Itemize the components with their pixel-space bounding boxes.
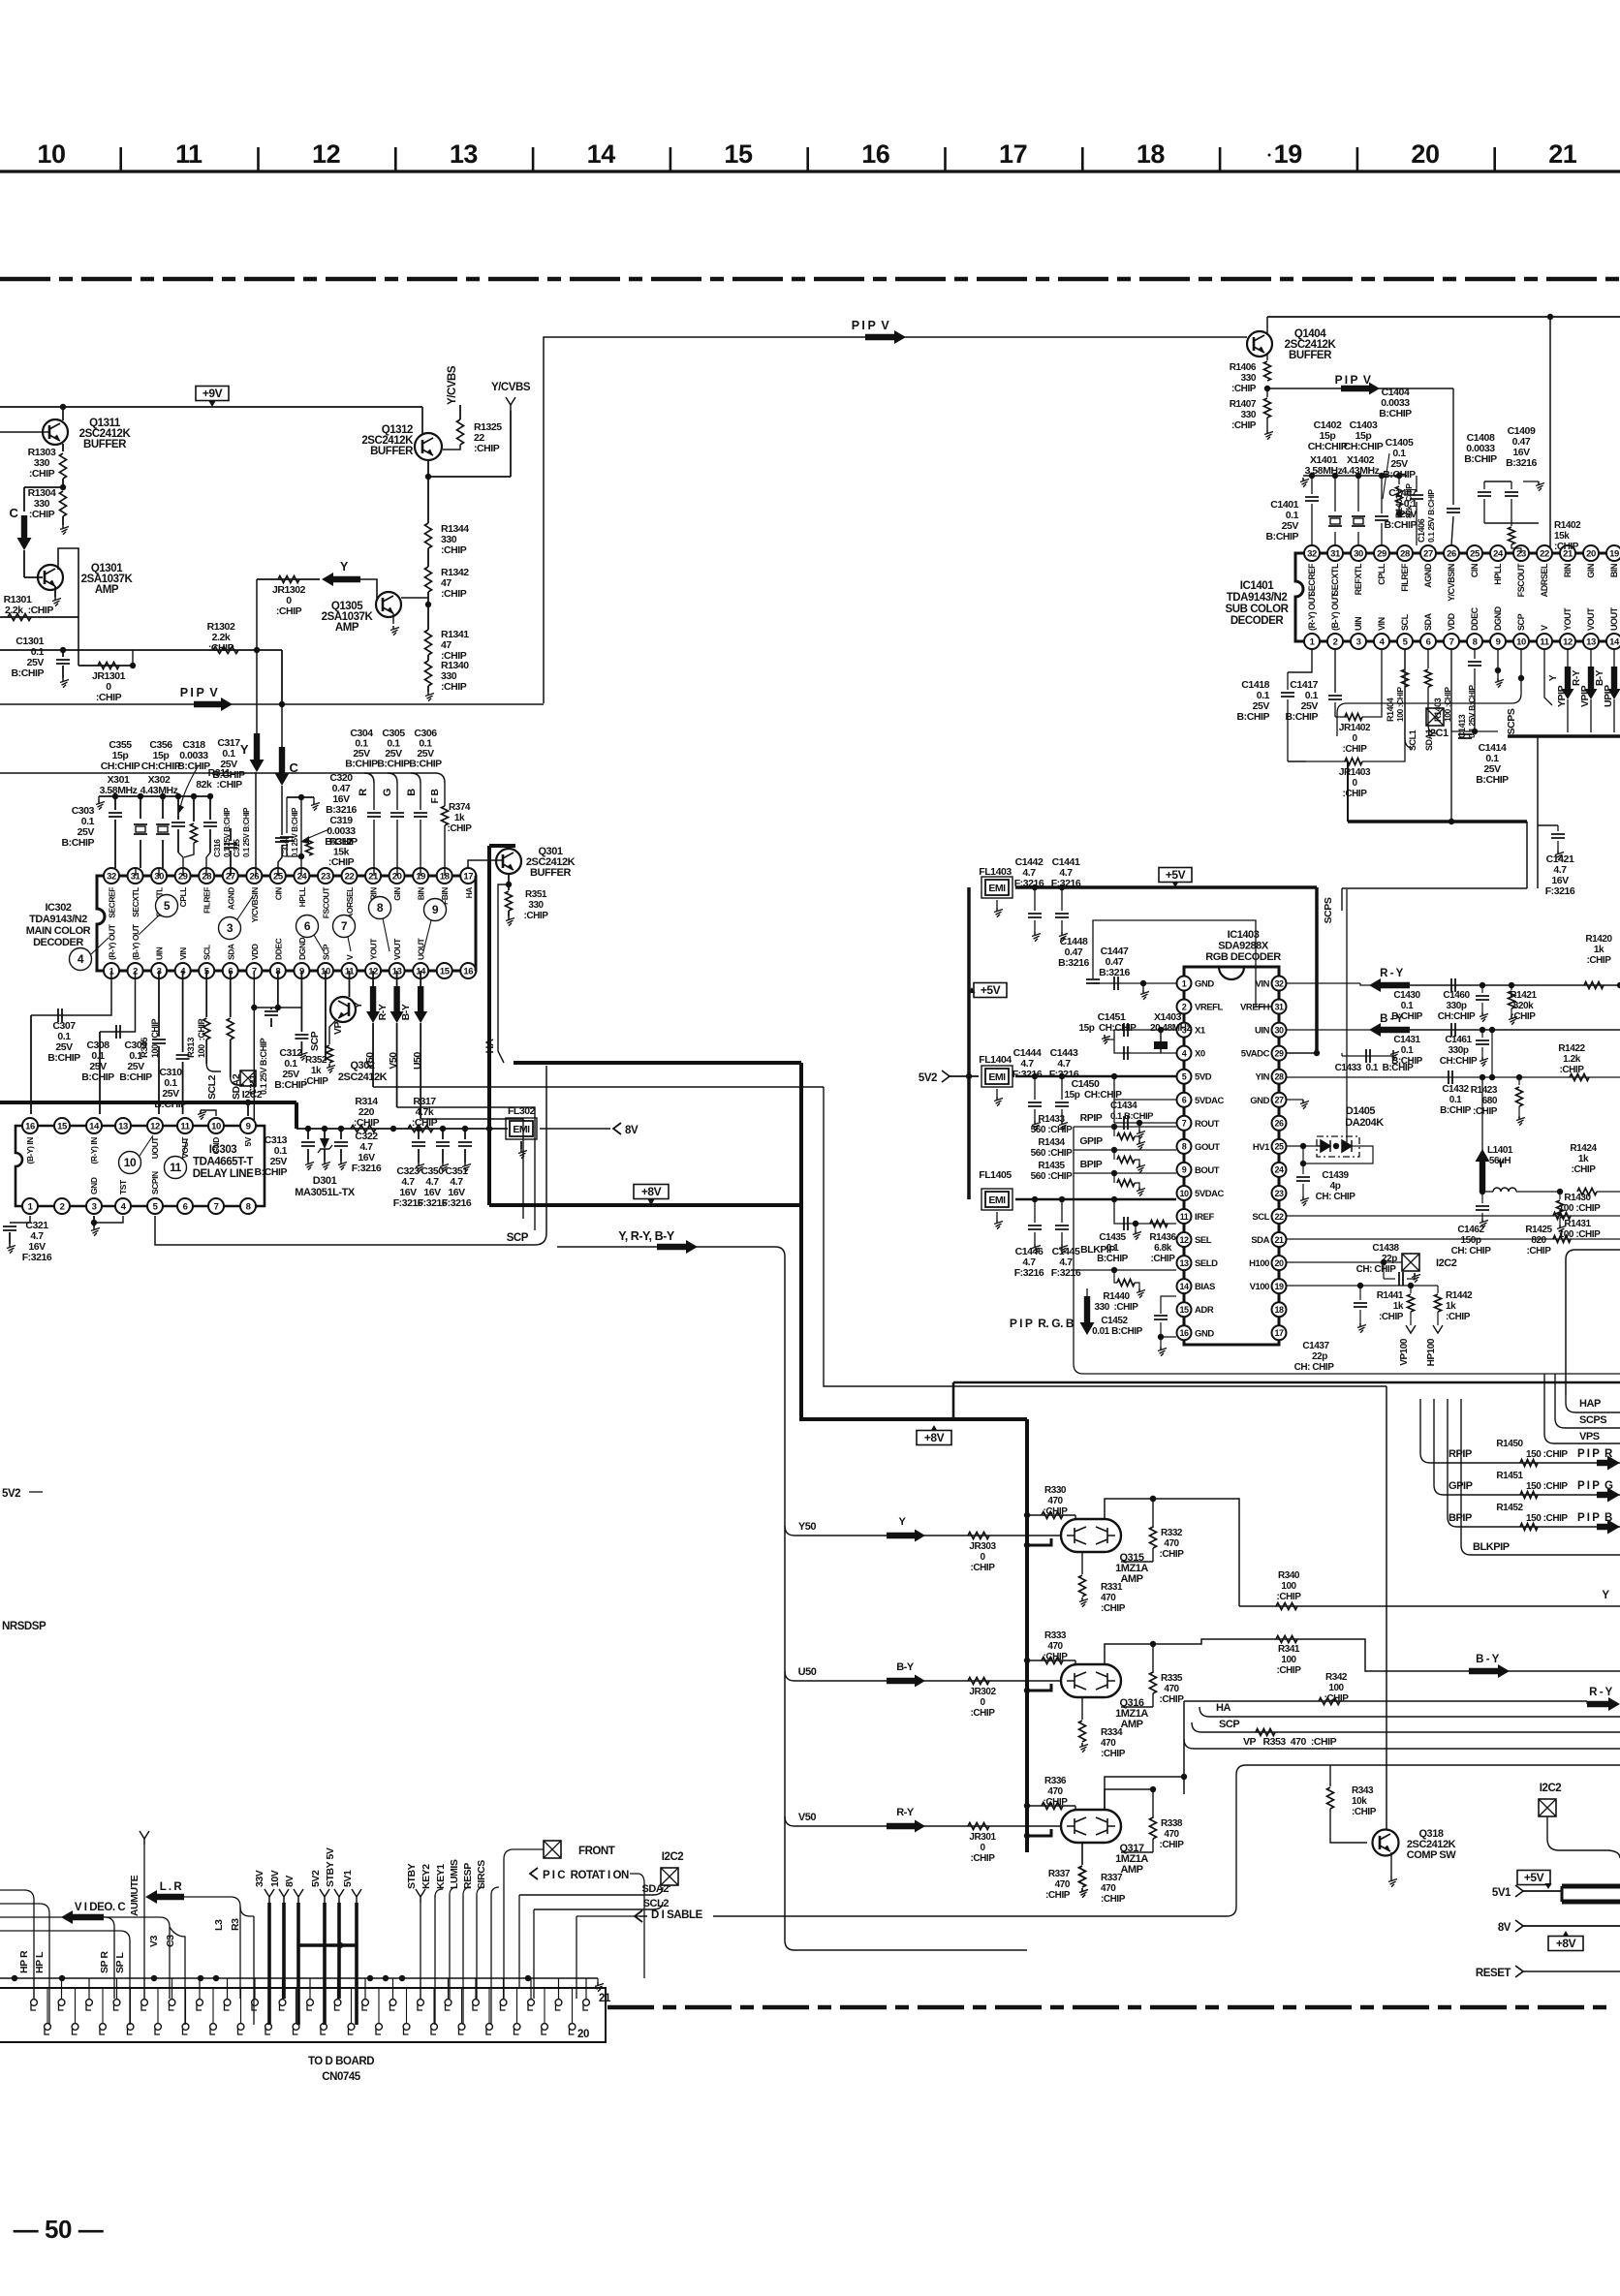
wire Q315 collector: [1105, 1499, 1153, 1519]
wire Y50 branch: [785, 1526, 794, 1536]
svg-text:B:CHIP: B:CHIP: [1391, 1011, 1423, 1022]
svg-text:13: 13: [1179, 1258, 1189, 1268]
svg-text:26: 26: [249, 871, 259, 882]
svg-text:16: 16: [463, 966, 473, 977]
svg-text::CHIP: :CHIP: [1044, 1506, 1069, 1517]
svg-text:UIN: UIN: [155, 946, 165, 960]
svg-text:EMI: EMI: [988, 1195, 1006, 1206]
svg-text:10V: 10V: [269, 1870, 281, 1887]
svg-text:BLKPIP: BLKPIP: [1473, 1541, 1510, 1553]
svg-text:FILREF: FILREF: [202, 887, 212, 914]
svg-text:6: 6: [183, 1201, 188, 1212]
resistor JR1403: [1306, 760, 1347, 762]
PIP box left edge: [1566, 1250, 1620, 1395]
svg-text:0.1 25V B:CHIP: 0.1 25V B:CHIP: [242, 807, 251, 857]
svg-text:IREF: IREF: [1195, 1212, 1214, 1223]
svg-text::CHIP: :CHIP: [328, 856, 355, 868]
svg-text:82k :CHIP: 82k :CHIP: [196, 779, 242, 791]
svg-text:DELAY LINE: DELAY LINE: [193, 1168, 254, 1180]
amp Q316: [1061, 1664, 1121, 1697]
svg-text:D1405: D1405: [1346, 1105, 1375, 1117]
svg-text:L . R: L . R: [160, 1881, 183, 1893]
svg-text:CIN: CIN: [1470, 564, 1480, 577]
svg-text:B:CHIP: B:CHIP: [1476, 774, 1509, 786]
heavy output bus below IC1401: [1508, 734, 1620, 738]
svg-text:B:3216: B:3216: [1506, 457, 1537, 469]
capacitor C307: [31, 971, 111, 1015]
svg-text:R1435: R1435: [1038, 1161, 1065, 1171]
resistor R1402: [1511, 523, 1512, 526]
svg-text:C1430: C1430: [1393, 990, 1420, 1001]
svg-text:21: 21: [1274, 1235, 1284, 1245]
svg-text:C1437: C1437: [1302, 1341, 1329, 1351]
svg-text:560 :CHIP: 560 :CHIP: [1031, 1148, 1073, 1159]
wire R1422 net: [1492, 1030, 1511, 1077]
svg-text:27: 27: [1423, 548, 1433, 559]
svg-text:VOUT: VOUT: [392, 938, 402, 960]
svg-text:0.1 25V B:CHIP: 0.1 25V B:CHIP: [291, 807, 299, 857]
svg-text:R1430: R1430: [1564, 1193, 1591, 1203]
wire rail to pin22: [1549, 317, 1551, 553]
svg-text:R337: R337: [1101, 1873, 1123, 1883]
svg-text:SDA: SDA: [1251, 1235, 1269, 1246]
svg-text::CHIP: :CHIP: [1343, 789, 1368, 799]
capacitor C1301: [0, 649, 63, 651]
svg-text:Y50: Y50: [364, 1052, 376, 1070]
capacitor C1461: [1480, 1027, 1485, 1033]
svg-text:5VD: 5VD: [1195, 1072, 1212, 1083]
svg-text:7: 7: [214, 1201, 219, 1212]
amp supply bus vertical: [1025, 1419, 1029, 1852]
ruler stray dot: [740, 154, 743, 157]
svg-text:2: 2: [60, 1201, 65, 1212]
wire Q317 collector rail: [1105, 1777, 1184, 1810]
svg-text:330: 330: [1241, 410, 1257, 420]
svg-text:4: 4: [78, 952, 84, 966]
svg-text::CHIP: :CHIP: [1160, 1694, 1185, 1705]
capacitor C1432: [1287, 1076, 1492, 1078]
svg-text:12: 12: [1179, 1235, 1189, 1245]
svg-text:Y50: Y50: [798, 1521, 817, 1533]
svg-text:R-Y: R-Y: [377, 1004, 389, 1020]
svg-text:+5V: +5V: [1524, 1871, 1544, 1884]
heavy C bus from Q301 down: [487, 846, 491, 1127]
svg-text:TDA9143/N2: TDA9143/N2: [1227, 592, 1288, 604]
svg-text:11: 11: [175, 140, 202, 169]
svg-text:100 :CHIP: 100 :CHIP: [150, 1019, 160, 1058]
svg-text:CH: CHIP: CH: CHIP: [1356, 1264, 1397, 1275]
capacitor C1460 resistor R1421: [1480, 982, 1485, 988]
svg-text:17: 17: [999, 140, 1027, 169]
svg-text::CHIP: :CHIP: [441, 588, 467, 600]
svg-text:BUFFER: BUFFER: [370, 446, 414, 457]
transistor Q1301: [38, 565, 63, 590]
svg-text:UIN: UIN: [1354, 617, 1363, 631]
svg-text:D I SABLE: D I SABLE: [651, 1909, 703, 1921]
connector top row pins: [31, 2000, 38, 2006]
connector bottom row pins: [45, 2024, 51, 2031]
svg-text:UOUT: UOUT: [1609, 606, 1619, 631]
svg-text:20: 20: [1274, 1258, 1284, 1268]
svg-text:R332: R332: [1161, 1528, 1183, 1538]
resistor R1340: [427, 655, 429, 661]
svg-text:R1442: R1442: [1446, 1290, 1473, 1301]
resistor R331: [1081, 1552, 1083, 1574]
resistor R1442: [1437, 1286, 1439, 1293]
svg-text:1k: 1k: [1393, 1301, 1404, 1312]
svg-text:GND: GND: [1250, 1096, 1269, 1106]
svg-text::CHIP: :CHIP: [276, 605, 302, 617]
svg-text:Y/CVBSIN: Y/CVBSIN: [250, 887, 260, 923]
svg-text::CHIP: :CHIP: [1277, 1665, 1302, 1676]
svg-text:H100: H100: [1249, 1258, 1269, 1269]
svg-text:6: 6: [1182, 1096, 1187, 1105]
svg-text:R1424: R1424: [1570, 1143, 1597, 1154]
svg-text:SCPS: SCPS: [1579, 1414, 1606, 1426]
resistor R333: [1024, 1658, 1030, 1663]
transistor Q302: [330, 997, 356, 1022]
connector bus line: [0, 1977, 598, 1979]
svg-text:10: 10: [1516, 636, 1526, 647]
IC302 callout bubble 8: [369, 897, 391, 919]
svg-text:6: 6: [1426, 636, 1431, 647]
svg-text:RIN: RIN: [1563, 564, 1573, 577]
ADR pin15 wire: [1161, 1319, 1176, 1320]
svg-text:+9V: +9V: [202, 387, 223, 400]
svg-text:R374: R374: [449, 802, 471, 813]
svg-text:3: 3: [227, 921, 234, 935]
HA row wire: [1199, 1707, 1620, 1717]
svg-text:56µH: 56µH: [1489, 1156, 1511, 1166]
wire Q317 collector: [1105, 1789, 1153, 1810]
svg-text:470: 470: [1055, 1879, 1071, 1890]
connector ground: [597, 1982, 599, 1985]
svg-text:— 50 —: — 50 —: [14, 2215, 104, 2244]
svg-text:5: 5: [164, 899, 171, 913]
svg-text:R343: R343: [1352, 1785, 1374, 1796]
svg-text:10: 10: [1179, 1189, 1189, 1198]
resistor R1341: [427, 617, 429, 630]
IC1401 top pins 32-19: [1304, 545, 1320, 561]
svg-text:NRSDSP: NRSDSP: [2, 1621, 47, 1632]
svg-text:CH:CHIP: CH:CHIP: [1438, 1011, 1476, 1022]
svg-text:0.1: 0.1: [1401, 1045, 1414, 1056]
transistor Q301: [496, 849, 521, 874]
svg-text:8: 8: [1182, 1142, 1187, 1152]
resistor R343: [1329, 1765, 1331, 1786]
svg-text:0: 0: [980, 1843, 985, 1853]
svg-text:12: 12: [312, 140, 340, 169]
svg-text:HP L: HP L: [34, 1951, 46, 1973]
resistor R334: [1081, 1697, 1083, 1720]
svg-text:31: 31: [1330, 548, 1341, 559]
svg-text:13: 13: [1586, 636, 1596, 647]
IC303 pin3 pin4 gnd: [93, 1216, 95, 1223]
DGND pin9 wire: [300, 971, 302, 1008]
svg-text:UOUT: UOUT: [150, 1136, 160, 1160]
svg-text:19: 19: [1609, 548, 1619, 559]
diode D301: [324, 1129, 326, 1138]
VDD pin7 to heavy rail: [1450, 649, 1452, 822]
svg-text:TO D BOARD: TO D BOARD: [308, 2056, 374, 2067]
svg-text:470: 470: [1164, 1538, 1179, 1549]
svg-text:14: 14: [1609, 636, 1620, 647]
svg-text:470: 470: [1164, 1829, 1179, 1840]
svg-text:SUB COLOR: SUB COLOR: [1226, 604, 1290, 615]
connector CN0745 body: [0, 1988, 606, 2042]
PIP V left arrow: [0, 703, 544, 705]
svg-text:0: 0: [980, 1552, 985, 1563]
svg-text:100: 100: [1281, 1655, 1296, 1665]
svg-text:+5V: +5V: [1166, 868, 1186, 882]
svg-text:10: 10: [124, 1156, 137, 1169]
svg-text:V50: V50: [798, 1812, 817, 1823]
svg-text:MAIN COLOR: MAIN COLOR: [26, 925, 91, 937]
svg-text:BPIP: BPIP: [1449, 1512, 1472, 1524]
svg-text:24: 24: [1274, 1165, 1284, 1175]
svg-text:V I DEO. C: V I DEO. C: [75, 1902, 126, 1913]
GND pin16 wire: [1160, 1337, 1162, 1347]
svg-text:R337: R337: [1048, 1869, 1071, 1879]
resistor JR1302: [257, 578, 320, 580]
transistor Q1305: [376, 592, 401, 617]
svg-text:R341: R341: [1278, 1644, 1300, 1655]
svg-text:VPS: VPS: [1579, 1431, 1600, 1443]
svg-text:820: 820: [1531, 1235, 1546, 1246]
svg-text:C1451: C1451: [1098, 1011, 1126, 1023]
svg-text:20: 20: [1411, 140, 1439, 169]
svg-text:R338: R338: [1161, 1818, 1183, 1829]
svg-text:AMP: AMP: [1120, 1573, 1142, 1585]
svg-text:4.43MHz: 4.43MHz: [140, 785, 178, 796]
svg-text:12: 12: [150, 1121, 160, 1132]
svg-text:GND: GND: [1195, 1328, 1214, 1339]
svg-text::CHIP: :CHIP: [1101, 1894, 1126, 1905]
wire C to Q1301 base: [23, 550, 25, 577]
svg-text:R-Y: R-Y: [896, 1807, 915, 1818]
svg-text:R1422: R1422: [1558, 1043, 1585, 1054]
svg-text:R1436: R1436: [1149, 1232, 1176, 1243]
svg-text:10: 10: [211, 1121, 221, 1132]
PIP V top arrow: [865, 330, 906, 344]
svg-text:9: 9: [432, 903, 439, 916]
C1438 element: [1383, 1262, 1385, 1279]
svg-text:24: 24: [1493, 548, 1504, 559]
svg-text:14: 14: [89, 1121, 100, 1132]
svg-text:VP100: VP100: [1399, 1338, 1410, 1366]
svg-text:28: 28: [1274, 1072, 1284, 1082]
svg-text:11: 11: [1180, 1212, 1189, 1222]
wire Q1301 collector: [58, 548, 78, 666]
capacitor C312: [277, 971, 279, 1008]
resistor R1325: [459, 405, 461, 419]
svg-text:F:3216: F:3216: [442, 1197, 472, 1209]
svg-text:Y: Y: [1548, 674, 1559, 681]
svg-text:KEY1: KEY1: [435, 1864, 447, 1889]
svg-text:SP L: SP L: [114, 1952, 126, 1973]
svg-text:B-Y: B-Y: [896, 1661, 915, 1673]
svg-text:BUFFER: BUFFER: [1289, 350, 1332, 361]
IC302 callout bubble 6: [296, 915, 319, 938]
Y arrow up: [1481, 1077, 1483, 1151]
svg-text::CHIP: :CHIP: [441, 681, 467, 693]
svg-text:470: 470: [1047, 1641, 1063, 1652]
svg-text:P I C ROTAT I ON: P I C ROTAT I ON: [543, 1870, 629, 1881]
I2C2 right wire: [1547, 1816, 1620, 1858]
svg-text:19: 19: [1274, 1282, 1284, 1291]
svg-text:B:CHIP: B:CHIP: [1379, 408, 1412, 419]
svg-text:11: 11: [170, 1161, 182, 1174]
Q318 collector wire: [1386, 1386, 1387, 1830]
VDD pin7 wire: [253, 971, 255, 1127]
svg-text:+8V: +8V: [1556, 1937, 1576, 1950]
BPIP PIP B row: [1448, 1399, 1620, 1527]
svg-text:AORSEL: AORSEL: [345, 887, 355, 919]
svg-text:C1461: C1461: [1445, 1035, 1472, 1045]
svg-text:COMP SW: COMP SW: [1407, 1849, 1456, 1861]
svg-text:GND: GND: [1195, 979, 1214, 990]
HPLL filter cluster: [300, 797, 302, 876]
transistor Q1311: [43, 419, 68, 445]
DISABLE row wire: [1227, 1765, 1620, 1916]
svg-text:32: 32: [1274, 978, 1284, 988]
svg-text:3: 3: [1356, 636, 1361, 647]
svg-text:B:3216: B:3216: [1058, 957, 1089, 969]
crystal X1401 element: [1334, 476, 1336, 512]
C319 pointer arc: [304, 829, 329, 840]
svg-text:P I P V: P I P V: [180, 686, 219, 699]
svg-text::CHIP: :CHIP: [1473, 1106, 1498, 1117]
wire PIP V down to pin26: [1452, 388, 1454, 505]
svg-text:Y, R-Y, B-Y: Y, R-Y, B-Y: [618, 1229, 675, 1243]
C1408 C1409 elements: [1484, 481, 1511, 482]
svg-text:2SC2412K: 2SC2412K: [338, 1071, 388, 1083]
svg-text::CHIP: :CHIP: [29, 509, 55, 520]
svg-text:R313: R313: [186, 1038, 197, 1058]
svg-text:CH:CHIP: CH:CHIP: [141, 760, 181, 772]
I2C2 top right test point: [1402, 1254, 1419, 1271]
resistor JR302: [968, 1678, 989, 1685]
svg-text:C1452: C1452: [1101, 1316, 1128, 1326]
heavy 5V bar: [1562, 1884, 1620, 1889]
svg-text:JR1402: JR1402: [1339, 723, 1371, 733]
svg-text:AUMUTE: AUMUTE: [129, 1875, 140, 1916]
svg-text:CH: CHIP: CH: CHIP: [1294, 1362, 1335, 1373]
svg-text:C316: C316: [212, 839, 222, 857]
SCP row wire: [1192, 1722, 1620, 1732]
RGB top feed rail: [0, 772, 435, 774]
svg-text:150 :CHIP: 150 :CHIP: [1526, 1513, 1568, 1524]
svg-text:SIRCS: SIRCS: [476, 1860, 487, 1889]
svg-text::CHIP: :CHIP: [1343, 744, 1368, 755]
svg-text:4: 4: [1182, 1048, 1187, 1058]
svg-text:CN0745: CN0745: [322, 2071, 361, 2083]
svg-text:B: B: [406, 789, 418, 796]
svg-text:(R-Y) IN: (R-Y) IN: [89, 1137, 99, 1164]
svg-text:22: 22: [1540, 548, 1549, 559]
svg-text:VP R353 470 :CHIP: VP R353 470 :CHIP: [1243, 1736, 1337, 1748]
svg-text:15: 15: [440, 966, 451, 977]
Y R-Y B-Y wire: [557, 1246, 775, 1248]
svg-text:(R-Y) OUT: (R-Y) OUT: [108, 923, 117, 960]
svg-text:F B: F B: [430, 789, 441, 803]
IC303 top pins 16-9: [22, 1118, 38, 1133]
resistor R353: [1256, 1729, 1275, 1736]
svg-text:SELD: SELD: [1195, 1258, 1218, 1269]
amp Q317: [1061, 1810, 1121, 1843]
svg-text:32: 32: [1307, 548, 1317, 559]
svg-text:11: 11: [180, 1121, 190, 1132]
svg-text:V100: V100: [1250, 1282, 1270, 1292]
svg-text:13: 13: [450, 140, 479, 169]
Y50 route to right: [373, 1086, 824, 1088]
svg-text:REFXTL: REFXTL: [1354, 563, 1363, 595]
svg-text:470: 470: [1047, 1496, 1063, 1506]
svg-text:F:3216: F:3216: [352, 1163, 382, 1174]
V100 wire: [1287, 1285, 1438, 1287]
heavy bus horizontal y1097: [514, 1061, 801, 1065]
crystal X301: [140, 796, 141, 819]
top section chain line: [0, 277, 1620, 282]
svg-text:YOUT: YOUT: [1563, 607, 1573, 631]
svg-text:B:CHIP: B:CHIP: [1266, 531, 1299, 543]
capacitor C350: [442, 1129, 444, 1139]
svg-text:B:CHIP: B:CHIP: [177, 760, 210, 772]
svg-text:B:CHIP: B:CHIP: [62, 837, 95, 849]
IC1401 tuning rail: [1303, 475, 1407, 477]
capacitor C1462: [1481, 1192, 1483, 1203]
svg-text:SCL2: SCL2: [206, 1074, 218, 1100]
+9V supply rail: [0, 406, 422, 408]
heavy bus Y RY BY vertical: [487, 1129, 491, 1205]
svg-text:28: 28: [1400, 548, 1410, 559]
svg-text:HP100: HP100: [1426, 1338, 1437, 1366]
heavy bus corner x827: [799, 1063, 803, 1205]
svg-text:P I P B: P I P B: [1577, 1512, 1612, 1524]
resistor R338: [1152, 1789, 1154, 1818]
svg-text:U50: U50: [412, 1051, 423, 1070]
svg-text:CPLL: CPLL: [178, 887, 188, 908]
svg-text:R336: R336: [1044, 1776, 1067, 1786]
svg-text:DDEC: DDEC: [1470, 606, 1480, 631]
svg-text:R1423: R1423: [1471, 1085, 1498, 1096]
svg-text::CHIP: :CHIP: [1324, 1693, 1350, 1704]
IC1403 right pins 32-17: [1272, 977, 1287, 991]
svg-text:FILREF: FILREF: [1400, 563, 1410, 592]
capacitor C1404 element: [1381, 476, 1383, 513]
PIC ROTATION wire: [630, 1874, 644, 1978]
+5V label top: [1159, 868, 1192, 883]
PIP RGB wire down: [1074, 1259, 1620, 1374]
svg-text:C3: C3: [165, 1935, 176, 1947]
IC302 top pins 32-17: [104, 868, 119, 884]
svg-text::CHIP: :CHIP: [1044, 1652, 1069, 1662]
C1444 C1443 elements: [1034, 1076, 1036, 1100]
svg-text:470: 470: [1101, 1738, 1116, 1749]
svg-text:BIN: BIN: [1609, 564, 1619, 577]
svg-text:SCL2: SCL2: [643, 1898, 670, 1909]
tuning junction rail: [99, 795, 210, 797]
svg-text:SCL1: SCL1: [1408, 729, 1417, 751]
svg-text:SCP: SCP: [321, 944, 330, 960]
svg-text:FSCOUT: FSCOUT: [321, 886, 330, 919]
svg-text:R333: R333: [1044, 1630, 1067, 1641]
svg-text:G: G: [382, 789, 393, 796]
svg-text:5V1: 5V1: [342, 1870, 354, 1887]
H100 wire C1438: [1287, 1261, 1402, 1263]
svg-text:HAP: HAP: [1579, 1398, 1601, 1410]
svg-text:7: 7: [341, 919, 348, 933]
